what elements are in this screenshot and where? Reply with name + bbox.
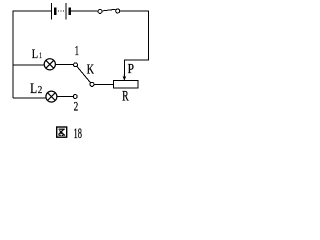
svg-text:L: L xyxy=(32,46,38,61)
svg-text:2: 2 xyxy=(38,85,43,96)
svg-text:L: L xyxy=(30,81,37,97)
svg-text:2: 2 xyxy=(74,99,79,114)
svg-text:18: 18 xyxy=(74,126,82,142)
svg-text:K: K xyxy=(87,61,95,76)
svg-text:R: R xyxy=(122,88,129,104)
svg-text:1: 1 xyxy=(39,50,42,60)
svg-text:1: 1 xyxy=(75,43,79,58)
svg-text:P: P xyxy=(128,61,135,76)
